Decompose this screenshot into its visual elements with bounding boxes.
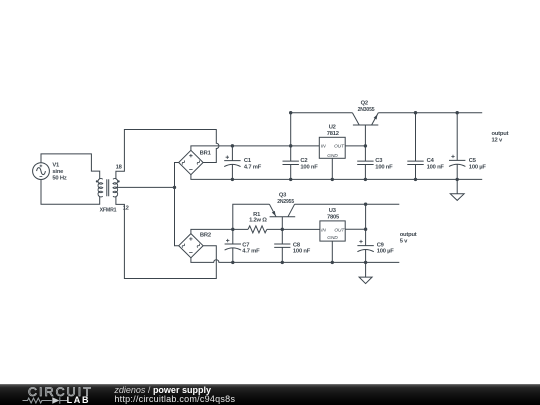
svg-text:IN: IN [321,227,326,233]
svg-text:7805: 7805 [327,215,340,221]
svg-text:sine: sine [52,169,64,175]
junction 12V top rail start [289,111,292,114]
capacitor C8 [274,229,290,262]
transistor Q3 [269,204,295,229]
junction center tap node [173,186,176,189]
svg-text:2N2955: 2N2955 [277,199,295,205]
label Q3 2N2955 [277,193,295,205]
voltage source V1 [33,163,50,180]
wire 5V top rail left + C7 riser [233,204,270,229]
svg-text:100 nF: 100 nF [293,249,311,255]
label output 5 v [400,232,417,244]
capacitor C3 [357,146,373,180]
junction C7 top [231,228,234,231]
svg-text:100 µF: 100 µF [377,249,395,255]
junction C7 bottom [231,261,234,264]
wire BR2 plus rail (mid rail 5V) [191,229,248,233]
label C1 4.7 mF [244,158,262,170]
svg-text:C4: C4 [427,158,435,164]
label C4 100 nF [427,158,445,170]
junction C8 bottom [281,261,284,264]
wire 5V bottom rail (hop over 12-tap wire) [191,258,399,263]
wire U2 IN [291,145,320,147]
wire BR1 plus rail (mid rail 12V) [191,146,291,150]
junction C1 top [231,144,234,147]
svg-text:C1: C1 [244,158,252,164]
svg-text:OUT: OUT [334,227,345,233]
svg-text:C5: C5 [469,158,477,164]
svg-text:4.7 mF: 4.7 mF [242,249,260,255]
ground 5V output [359,262,372,283]
label U2 7812 [321,125,345,160]
wire secondary tap 18 to BR1 right (hop over + rail) [116,130,219,179]
junction U3 GND bottom [331,261,334,264]
svg-text:Q2: Q2 [361,101,368,107]
label BR1 [200,150,212,156]
capacitor C1 [224,146,240,180]
wire secondary bottom tap 12 to BR2 right (passes under hop) [116,197,216,279]
regulator U3 7805 [320,221,345,241]
wire U2 OUT [345,145,365,147]
svg-text:BR1: BR1 [200,150,212,156]
svg-text:IN: IN [321,144,326,150]
regulator U2 7812 [319,137,345,158]
capacitor C5 [449,113,465,180]
wire U3 OUT [345,228,365,230]
capacitor C2 [283,146,299,180]
junction C3 bottom [364,178,367,181]
svg-text:U2: U2 [329,125,336,131]
transformer XFMR1 [96,179,120,197]
svg-text:U3: U3 [329,208,337,214]
label V1 sine 50 Hz [52,163,66,182]
label C3 100 nF [375,158,393,170]
label Q2 2N3055 [358,101,376,113]
pin label 18 [116,164,123,170]
svg-text:output: output [400,232,417,238]
junction C5 bottom [456,178,459,181]
wire V1 minus to XFMR1 primary bottom [41,180,100,205]
svg-text:Q3: Q3 [279,193,287,199]
svg-text:BR2: BR2 [200,232,211,238]
transistor Q2 [352,113,378,146]
label C5 100 uF [469,158,487,170]
junction C9 bottom [364,261,367,264]
wire U2 GND [331,158,333,179]
svg-text:7812: 7812 [327,131,339,137]
bridge rectifier BR1 [179,150,203,174]
wire 12V top rail left segment [291,112,353,114]
label output 12 v [492,131,509,143]
wire R1 to U3 IN [267,228,320,230]
svg-text:output: output [492,131,509,137]
svg-text:100 nF: 100 nF [300,165,318,171]
junction C4 bottom [414,178,417,181]
label U3 7805 [321,208,345,241]
label C7 4.7 mF [242,242,260,254]
svg-text:C2: C2 [300,158,307,164]
capacitor C7 [225,229,241,262]
capacitor C9 [357,204,373,262]
svg-text:GND: GND [327,153,338,159]
svg-text:GND: GND [327,235,338,241]
junction Q3 base node [281,228,284,231]
svg-text:XFMR1: XFMR1 [100,208,118,214]
junction C1 bottom [231,178,234,181]
svg-text:C8: C8 [293,242,301,248]
junction 5V top rail / C9 [364,203,367,206]
wire 12V top rail right segment [378,112,482,114]
junction U2 OUT node [364,144,367,147]
svg-text:12 v: 12 v [492,137,503,143]
wire U3 GND [331,241,333,262]
ground 12V output [450,179,464,200]
junction C4 top [414,111,417,114]
junction U2 IN node [289,144,292,147]
wire 5V top rail right segment [295,203,400,205]
capacitor C4 [407,113,423,180]
svg-text:C7: C7 [242,242,249,248]
svg-text:5 v: 5 v [400,239,408,245]
svg-text:V1: V1 [52,163,60,169]
wire center tap to node [116,186,175,188]
svg-text:4.7 mF: 4.7 mF [244,165,262,171]
svg-text:100 nF: 100 nF [427,165,445,171]
pin label 12 [123,205,129,211]
junction C5 top [456,111,459,114]
label BR2 [200,232,211,238]
wire 12V bottom rail [191,175,482,180]
wire 12V input vertical riser [290,113,292,146]
label XFMR1 [100,208,118,214]
junction U2 GND bottom [331,178,334,181]
svg-text:C3: C3 [375,158,383,164]
label C8 100 nF [293,242,311,254]
svg-text:1.2w Ω: 1.2w Ω [249,218,267,224]
label C2 100 nF [300,158,318,170]
svg-text:100 µF: 100 µF [469,165,487,171]
wire V1 plus to XFMR1 primary top [41,154,100,179]
junction U3 OUT node [364,228,367,231]
wire BR1 left to BR2 left [175,163,179,246]
label R1 1.2w [249,212,267,224]
label C9 100 uF [377,242,395,254]
svg-text:OUT: OUT [334,144,345,150]
svg-text:50 Hz: 50 Hz [52,176,66,182]
svg-text:C9: C9 [377,242,385,248]
junction C2 bottom [289,178,292,181]
svg-text:2N3055: 2N3055 [358,107,376,113]
svg-text:100 nF: 100 nF [375,165,393,171]
resistor R1 [248,226,267,233]
svg-text:12: 12 [123,205,129,211]
bridge rectifier BR2 [179,234,203,258]
svg-text:18: 18 [116,164,123,170]
